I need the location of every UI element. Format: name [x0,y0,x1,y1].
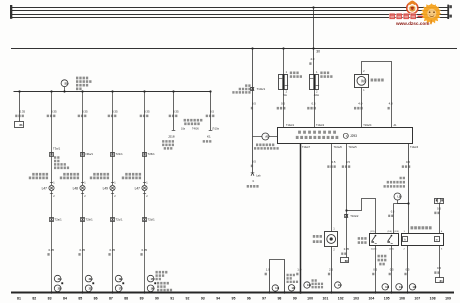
svg-text:246: 246 [58,278,63,281]
svg-text:T21/1: T21/1 [116,152,124,156]
wire drop x408 to pressure switch [408,144,410,234]
splice circle thermo 2 [396,284,402,290]
splice circles c2 [85,275,92,282]
svg-text:1.0: 1.0 [297,267,301,271]
svg-text:Lab: Lab [256,174,261,178]
svg-text:K1: K1 [207,134,211,138]
svg-text:106: 106 [399,297,405,301]
label aux fan name [371,79,384,82]
svg-text:T10w/3: T10w/3 [410,146,419,149]
svg-text:1.0: 1.0 [266,267,270,271]
connector T2 row c2 [81,218,85,222]
wire motor loop [362,62,392,128]
ground box right [436,278,444,283]
svg-text:87: 87 [109,297,113,301]
svg-text:0.5: 0.5 [346,160,350,164]
watermark red brand text [389,13,395,19]
svg-text:94: 94 [216,297,220,301]
svg-text:99: 99 [293,297,297,301]
splice circles c3 [115,275,122,282]
splice circle L30 [394,193,401,200]
label fuse1 name [290,71,299,74]
sensor circle A17 [253,136,262,138]
pressure switch box F129 [402,234,444,246]
svg-text:T3a/1: T3a/1 [53,146,61,150]
svg-text:86: 86 [94,297,98,301]
svg-text:91: 91 [170,297,174,301]
svg-text:95: 95 [232,297,236,301]
wire insulated joint staple [270,260,285,293]
connector block top right [435,199,444,204]
connector T2 row c1 [50,218,54,222]
svg-text:T10w/7: T10w/7 [302,146,311,149]
svg-text:103: 103 [353,297,359,301]
node A/C switch endpoint [251,173,255,176]
svg-text:T10w/4: T10w/4 [363,124,372,127]
wire horizontal feed y48.7 [11,48,457,50]
heater element L48 [81,182,84,184]
svg-text:97: 97 [262,297,266,301]
svg-text:0.35: 0.35 [51,109,57,113]
svg-text:0.5: 0.5 [406,267,410,271]
svg-text:J293: J293 [350,134,357,138]
label S19 text [76,77,88,80]
bus rail 31 (4th) [12,17,449,19]
svg-text:T2d/1: T2d/1 [148,218,156,222]
wire thermo drop 1 [375,246,377,293]
thermo switch box F18 [370,234,399,246]
label insulated joint text [287,274,296,276]
svg-text:107: 107 [414,297,420,301]
splice circle staple right [288,285,294,291]
svg-text:L47: L47 [42,186,48,190]
svg-text:0.5: 0.5 [406,160,410,164]
svg-text:A17: A17 [265,136,270,139]
label thermo switch below [378,255,387,258]
svg-text:(1/1): (1/1) [370,231,375,233]
wire pump to ground bus [331,247,333,293]
relay unit J293 box [278,128,413,144]
motor V7 aux fan [355,75,369,88]
fuse S19 circle [61,80,68,87]
splice circle thermo 1 [382,284,388,290]
label heater name c3 [93,173,109,176]
svg-text:4.0: 4.0 [310,57,314,61]
wire S19 stub [64,87,66,92]
splice circle near heavy drop [304,282,310,288]
wire pressure drop left [407,246,409,293]
svg-text:T10w/1: T10w/1 [286,124,295,127]
connector T2 row c3 [111,218,115,222]
svg-text:0.35: 0.35 [173,109,179,113]
svg-text:0.5: 0.5 [390,267,394,271]
wire column c4 x144.5 [143,90,145,92]
svg-text:L48: L48 [73,186,79,190]
svg-text:30: 30 [316,50,320,54]
wire fuse1 feed x283.5 [282,47,284,49]
svg-text:T26/1: T26/1 [148,152,156,156]
heater element L47 [143,182,146,184]
svg-text:0.35: 0.35 [142,248,148,252]
svg-text:0.5: 0.5 [281,102,285,106]
svg-text:10a: 10a [181,128,186,131]
svg-text:0.5: 0.5 [391,209,395,213]
label text above L-circle [400,177,406,180]
svg-text:179: 179 [151,278,156,281]
splice circles c1 [54,275,61,282]
wire thermo drop 2 [391,246,393,293]
wire connector to pressure switch pin4 [439,203,441,234]
svg-text:98: 98 [277,297,281,301]
svg-text:31: 31 [19,123,23,127]
svg-text:96: 96 [247,297,251,301]
svg-text:0.5: 0.5 [332,160,336,164]
wire fuse2 to relay box [314,90,316,128]
label fuse2 name [320,71,329,74]
svg-text:4.0: 4.0 [358,102,362,106]
svg-text:230: 230 [58,288,63,291]
wire vertical 30 x313.3 [312,6,314,8]
svg-text:170: 170 [119,288,124,291]
svg-text:T4l/36: T4l/36 [192,128,199,131]
svg-text:0.5: 0.5 [437,206,441,210]
ground box 31 [15,122,24,128]
svg-text:T10s/1: T10s/1 [257,87,266,91]
svg-text:90: 90 [155,297,159,301]
svg-text:2.5: 2.5 [329,267,333,271]
wire branch to thermo switch [347,199,376,234]
svg-text:0.35: 0.35 [344,247,350,251]
label heater name c1 [32,173,48,176]
svg-text:169: 169 [151,288,156,291]
wire fuse1 to relay box [283,90,285,128]
svg-text:105: 105 [384,297,390,301]
svg-text:A: A [404,238,406,242]
svg-text:89: 89 [140,297,144,301]
label connector text block c1 [54,156,60,159]
svg-text:102: 102 [338,297,344,301]
svg-text:85: 85 [78,297,82,301]
heater element L49 [111,182,114,184]
splice circle pump [335,282,341,288]
label thermo switch left [358,237,367,240]
svg-text:T10w/6: T10w/6 [334,146,343,149]
bus rail 2 [12,10,449,12]
wire heavy drop x300 to ground bus [300,144,302,293]
svg-text:88: 88 [124,297,128,301]
ground box 60 [341,258,349,263]
rail right terminator [447,5,449,19]
connector T c2 [81,153,85,157]
watermark lion mascot [421,3,442,24]
svg-text:0.35: 0.35 [80,248,86,252]
svg-text:83: 83 [48,297,52,301]
bus rail 3 [12,14,449,16]
svg-text:0.35: 0.35 [110,248,116,252]
svg-text:0.35: 0.35 [144,109,150,113]
svg-text:0.5: 0.5 [373,267,377,271]
wire center drop x252.4 [251,47,253,49]
splice circle pressure [409,284,415,290]
label text block right of c4 splices [156,271,168,274]
svg-text:(7/10a: (7/10a [212,128,219,131]
wire column c3 x112.5 [111,90,113,92]
svg-text:T2b/1: T2b/1 [86,218,94,222]
svg-text:31: 31 [440,279,444,283]
svg-text:J218: J218 [168,134,175,138]
wire column c1 x51.5 [50,90,52,92]
connector T c3 [111,153,115,157]
wire pressure drop right to ground ref [439,246,441,278]
svg-text:T10w/5: T10w/5 [348,146,357,149]
wire drop x19.8 [18,90,20,92]
splice circle staple left [272,285,278,291]
splice circles c4 [147,275,154,282]
svg-text:m: m [436,239,438,242]
svg-text:(1/3): (1/3) [394,231,399,233]
svg-text:T10s/2: T10s/2 [350,214,359,218]
label heater name c2 [63,173,79,176]
svg-text:238: 238 [89,278,94,281]
wire branch to thermo switch 2 [393,204,395,234]
svg-text:81: 81 [17,297,21,301]
svg-text:0.5: 0.5 [252,159,256,163]
heater element L47 [50,182,53,184]
svg-text:0.35: 0.35 [49,248,55,252]
svg-text:N6a/1: N6a/1 [86,152,94,156]
svg-text:(1/4): (1/4) [388,231,393,233]
svg-text:L47: L47 [135,186,141,190]
label pressure switch name [411,226,432,229]
ground bus bottom [11,292,454,294]
svg-text:4.0: 4.0 [389,102,393,106]
svg-text:T2c/1: T2c/1 [116,218,123,222]
svg-text:0.35: 0.35 [20,109,26,113]
label temp switch text [256,144,274,147]
wire pump drop x331.5 [331,144,333,232]
svg-text:109: 109 [445,297,451,301]
svg-text:T10w/2: T10w/2 [316,124,325,127]
rail left terminator [10,5,12,19]
svg-text:84: 84 [63,297,67,301]
svg-text:0.5: 0.5 [210,109,214,113]
svg-text:92: 92 [186,297,190,301]
svg-text:198: 198 [119,278,124,281]
svg-text:0.35: 0.35 [112,109,118,113]
svg-text:108: 108 [430,297,436,301]
svg-text:0.5: 0.5 [312,102,316,106]
svg-text:93: 93 [201,297,205,301]
svg-text:104: 104 [368,297,374,301]
svg-text:C: C [346,134,348,138]
wire column c2 x82.5 [81,90,83,92]
wire endpoint drop x173.5 [172,90,174,92]
label heater name c4 [125,173,141,176]
wire T10s/2 drop x346 [346,144,348,258]
svg-text:S19: S19 [65,83,70,85]
connector T c4 [143,153,147,157]
watermark seal logo [407,1,418,14]
svg-text:T2a/1: T2a/1 [55,218,63,222]
connector T10s/1 [251,88,254,91]
label plug text left [245,84,251,87]
connector T10s/2 [345,215,348,218]
bus rail 30 (top) [12,7,449,9]
label connector strip text (blue 10pt) [184,119,203,122]
svg-text:www.dzsc.com: www.dzsc.com [395,21,429,26]
svg-text:60: 60 [345,259,349,263]
svg-text:82: 82 [32,297,36,301]
bus S19 y91 [14,91,211,93]
svg-text:M: M [361,79,365,84]
wire endpoint drop x210.5 [209,90,211,92]
label pump name [313,235,322,238]
svg-text:100: 100 [307,297,313,301]
connector T c1 [50,153,54,157]
svg-text:L49: L49 [103,186,109,190]
connector T2 row c4 [143,218,147,222]
wire motor to relay box [361,88,363,128]
svg-text:0.5: 0.5 [252,102,256,106]
svg-text:232: 232 [89,288,94,291]
label splice text right [312,279,317,281]
svg-text:0.5: 0.5 [437,266,441,270]
svg-text:0.35: 0.35 [82,109,88,113]
svg-text:101: 101 [322,297,328,301]
